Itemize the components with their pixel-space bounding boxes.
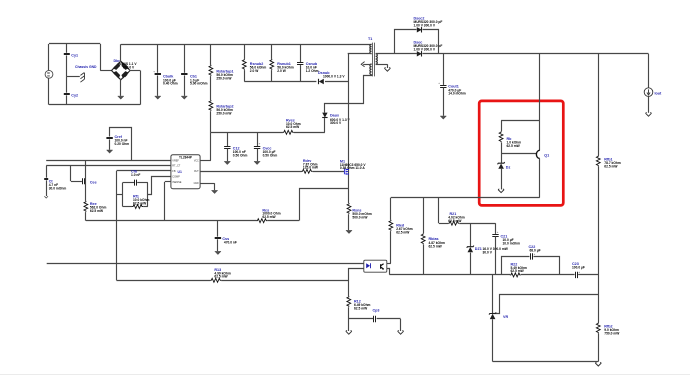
wire FB bbox=[117, 171, 171, 281]
ground under Rsns bbox=[346, 230, 352, 233]
svg-text:62.5 mW: 62.5 mW bbox=[604, 165, 618, 169]
svg-text:FB: FB bbox=[172, 170, 176, 173]
ground under Cvcc bbox=[254, 161, 260, 164]
svg-text:1.00 V 300.0 V: 1.00 V 300.0 V bbox=[414, 23, 436, 27]
resistor Rfb1 bbox=[596, 155, 620, 168]
svg-text:Cy2: Cy2 bbox=[71, 94, 78, 98]
bridge rectifier Dbr bbox=[112, 59, 138, 80]
svg-text:0.20 Ohm: 0.20 Ohm bbox=[115, 142, 130, 146]
wire OUT bbox=[200, 171, 302, 173]
svg-text:2.0 W: 2.0 W bbox=[277, 69, 286, 73]
resistor R13 bbox=[210, 268, 231, 282]
svg-text:Cee: Cee bbox=[90, 181, 97, 185]
ground under Iout bbox=[646, 96, 652, 116]
svg-text:250.0 mW: 250.0 mW bbox=[216, 76, 232, 80]
diode Daux bbox=[322, 113, 350, 133]
svg-text:250.0 mW: 250.0 mW bbox=[216, 112, 232, 116]
diode Dz bbox=[498, 154, 511, 190]
zener diode DZ1 bbox=[467, 223, 509, 275]
resistor Rsns bbox=[347, 203, 372, 230]
wire current sense rail bbox=[86, 189, 349, 221]
wire opto collector bbox=[387, 263, 391, 265]
svg-text:ISENSE: ISENSE bbox=[172, 181, 182, 184]
svg-text:10.0 mOhm: 10.0 mOhm bbox=[503, 242, 521, 246]
wire to R21 bbox=[439, 198, 449, 224]
resistor Rfb2 bbox=[596, 322, 620, 335]
IC U1 TL2844P bbox=[171, 155, 200, 189]
capacitor C23 bbox=[572, 262, 585, 278]
optocoupler U2 bbox=[364, 260, 387, 272]
capacitor Csnub bbox=[297, 44, 319, 81]
MOSFET M1 bbox=[340, 159, 366, 174]
wire RT_CT bbox=[46, 165, 171, 167]
svg-text:1.2 Ohm: 1.2 Ohm bbox=[306, 69, 319, 73]
resistor Ree bbox=[84, 160, 106, 220]
svg-text:0.50 Ohm: 0.50 Ohm bbox=[233, 154, 248, 158]
wire opto LED cathode from R13 bbox=[349, 269, 364, 281]
wire VREF bbox=[46, 160, 171, 162]
svg-text:62.5 mW: 62.5 mW bbox=[507, 144, 521, 148]
capacitor Cbulk bbox=[153, 44, 178, 96]
ground arrow secondary return bbox=[376, 64, 391, 71]
resistor Rcs bbox=[256, 208, 280, 222]
svg-text:RT_CT: RT_CT bbox=[172, 165, 180, 168]
ground under Cout1 bbox=[440, 116, 446, 119]
svg-text:62.5 mW: 62.5 mW bbox=[214, 275, 228, 279]
wire ISENSE bbox=[165, 182, 171, 221]
svg-text:VREF: VREF bbox=[172, 159, 179, 162]
diode Dsnub bbox=[318, 71, 345, 84]
svg-text:5.00 mOhm: 5.00 mOhm bbox=[190, 82, 208, 86]
ground output return bbox=[595, 362, 601, 366]
svg-text:T1: T1 bbox=[368, 37, 372, 41]
highlight box bbox=[479, 101, 563, 205]
svg-text:62.5 mW: 62.5 mW bbox=[396, 230, 410, 234]
wire divider bbox=[598, 54, 600, 362]
svg-text:125.0 mW: 125.0 mW bbox=[303, 166, 319, 170]
wire bridge to top rail bbox=[120, 44, 122, 62]
resistor R21 bbox=[448, 212, 495, 225]
resistor R22 bbox=[510, 262, 527, 277]
wire bridge AC right bbox=[129, 71, 140, 105]
ground under Dz bbox=[498, 189, 504, 193]
svg-text:1000.0 V 1.3 V: 1000.0 V 1.3 V bbox=[323, 74, 345, 78]
wire output rail bbox=[422, 53, 648, 55]
wire AC top bbox=[49, 43, 100, 45]
wire AC bottom bbox=[49, 104, 140, 106]
AC source V1 bbox=[45, 44, 53, 105]
capacitor Cref bbox=[106, 128, 131, 161]
ground under Cb1 bbox=[181, 96, 187, 99]
resistor Rb bbox=[499, 120, 521, 153]
svg-text:62.5 mW: 62.5 mW bbox=[286, 125, 300, 129]
capacitor Cp3 bbox=[349, 309, 401, 331]
svg-text:100.0 µF: 100.0 µF bbox=[572, 265, 585, 269]
resistor Rstartup2 bbox=[209, 76, 234, 132]
svg-text:62.5 mW: 62.5 mW bbox=[354, 307, 368, 311]
svg-text:Chassis GND: Chassis GND bbox=[75, 65, 97, 69]
wire VR anode return bbox=[493, 361, 599, 363]
capacitor Cee bbox=[71, 166, 97, 185]
svg-text:30.0 mOhm: 30.0 mOhm bbox=[49, 187, 67, 191]
capacitor C12 bbox=[224, 132, 247, 161]
capacitor Cout1 bbox=[438, 54, 466, 116]
wire compensation rail bbox=[389, 274, 598, 276]
wire feedback to opto (wire B) bbox=[117, 280, 349, 282]
svg-text:300.0 V: 300.0 V bbox=[330, 121, 342, 125]
svg-text:500.0 mW: 500.0 mW bbox=[352, 215, 368, 219]
capacitor C21 bbox=[492, 223, 520, 275]
resistor Rsnub1 bbox=[270, 44, 294, 81]
ground under Css bbox=[215, 251, 221, 254]
shunt regulator VR bbox=[489, 275, 508, 362]
chassis ground bbox=[67, 65, 97, 82]
svg-text:Iout: Iout bbox=[655, 92, 663, 96]
svg-text:68.0 µF: 68.0 µF bbox=[530, 249, 541, 253]
ground under Cp3 bbox=[398, 330, 404, 334]
svg-text:30.0 V: 30.0 V bbox=[483, 250, 493, 254]
svg-text:1.0 nF: 1.0 nF bbox=[131, 173, 140, 177]
resistor R12 bbox=[347, 280, 371, 331]
svg-text:TL2844P: TL2844P bbox=[179, 156, 193, 160]
svg-text:0.50 Ohm: 0.50 Ohm bbox=[263, 154, 278, 158]
wire primary bottom to drain bbox=[348, 53, 372, 55]
capacitor Cy1 bbox=[64, 44, 78, 77]
svg-text:Cp3: Cp3 bbox=[373, 309, 380, 313]
svg-text:DZ1: DZ1 bbox=[475, 247, 482, 251]
svg-text:0.40 Ohm: 0.40 Ohm bbox=[163, 82, 178, 86]
resistor Rvcc bbox=[283, 119, 301, 135]
svg-text:62.5 mW: 62.5 mW bbox=[90, 209, 104, 213]
current source Iout bbox=[644, 54, 662, 97]
svg-text:62.5 mW: 62.5 mW bbox=[133, 202, 147, 206]
capacitor Css bbox=[215, 221, 237, 252]
wire VCC rail bbox=[211, 132, 325, 134]
svg-text:2.0 W: 2.0 W bbox=[250, 69, 259, 73]
wire opto LED anode (wire A) bbox=[47, 263, 364, 265]
svg-text:62.5 mW: 62.5 mW bbox=[429, 244, 443, 248]
wire aux winding to Daux bbox=[325, 75, 372, 113]
diode Dsec2 bbox=[414, 16, 443, 32]
wire VCC pin bbox=[200, 132, 211, 160]
separator line bbox=[0, 374, 690, 376]
resistor Rsnub2 bbox=[242, 44, 266, 81]
wire Q1 base bbox=[501, 153, 537, 155]
capacitor Ct bbox=[44, 166, 66, 196]
capacitor Cvcc bbox=[254, 132, 277, 161]
MOSFET M1 drain wire bbox=[348, 54, 350, 203]
svg-text:1.00 V 300.0 V: 1.00 V 300.0 V bbox=[414, 47, 436, 51]
wire VR reference bbox=[493, 295, 599, 314]
svg-text:Cy1: Cy1 bbox=[71, 54, 78, 58]
svg-text:750.0 mW: 750.0 mW bbox=[604, 332, 620, 336]
ground under IC bbox=[212, 190, 218, 193]
svg-text:62.5 mW: 62.5 mW bbox=[262, 215, 276, 219]
resistor Rstartup1 bbox=[209, 44, 234, 80]
transformer T1 bbox=[368, 37, 377, 76]
compensation network box bbox=[117, 183, 148, 207]
wire Q1 collector to Rled bbox=[391, 197, 540, 199]
svg-text:0.38 Ohm 11.0 A: 0.38 Ohm 11.0 A bbox=[340, 166, 365, 170]
ground under R12 bbox=[346, 330, 352, 334]
svg-text:14.0 mOhm: 14.0 mOhm bbox=[448, 92, 466, 96]
wire GND pin bbox=[200, 183, 215, 190]
svg-text:VCC: VCC bbox=[194, 160, 199, 162]
wire bridge AC left bbox=[100, 44, 112, 71]
wire opto emitter bbox=[387, 269, 390, 275]
diode Dsec bbox=[414, 40, 443, 56]
wire secondary top bbox=[376, 53, 417, 55]
capacitor C22 bbox=[529, 245, 541, 260]
wire top rail bbox=[121, 44, 372, 46]
svg-text:GND: GND bbox=[194, 183, 199, 185]
svg-text:600.0 V: 600.0 V bbox=[123, 65, 135, 69]
svg-text:Dz: Dz bbox=[506, 165, 511, 169]
capacitor Cy2 bbox=[64, 77, 78, 105]
ground under bridge bbox=[118, 79, 124, 99]
capacitor Cb1 bbox=[181, 44, 208, 96]
aux winding arrow bbox=[361, 62, 371, 67]
ground under Cbulk bbox=[155, 96, 161, 99]
diode Dsec2 branch bbox=[395, 30, 439, 54]
capacitor C22 branch bbox=[502, 257, 560, 275]
resistor Rdrv bbox=[302, 159, 345, 174]
svg-text:62.5 mW: 62.5 mW bbox=[511, 269, 525, 273]
svg-text:470.0 nF: 470.0 nF bbox=[224, 241, 237, 245]
svg-text:62.5 mW: 62.5 mW bbox=[448, 219, 462, 223]
svg-text:VR: VR bbox=[503, 315, 508, 319]
svg-text:U1: U1 bbox=[178, 170, 182, 174]
svg-text:COMP: COMP bbox=[172, 175, 180, 178]
wire Vout to Q1 emitter bbox=[539, 54, 541, 121]
resistor Rf1 bbox=[132, 194, 149, 208]
svg-text:Q1: Q1 bbox=[544, 154, 549, 158]
wire COMP bbox=[148, 177, 171, 195]
svg-text:OUT: OUT bbox=[194, 171, 199, 173]
resistor Rbias bbox=[421, 198, 445, 275]
capacitor Cfb bbox=[131, 170, 140, 186]
wire snubber bottom bbox=[244, 81, 349, 83]
ground under Ct bbox=[44, 196, 48, 198]
ground under Cref bbox=[107, 150, 113, 153]
ground under C12 bbox=[224, 161, 230, 164]
wire Q1 cell top bbox=[501, 120, 540, 122]
transistor Q1 bbox=[536, 120, 549, 197]
resistor Rled bbox=[389, 198, 413, 264]
